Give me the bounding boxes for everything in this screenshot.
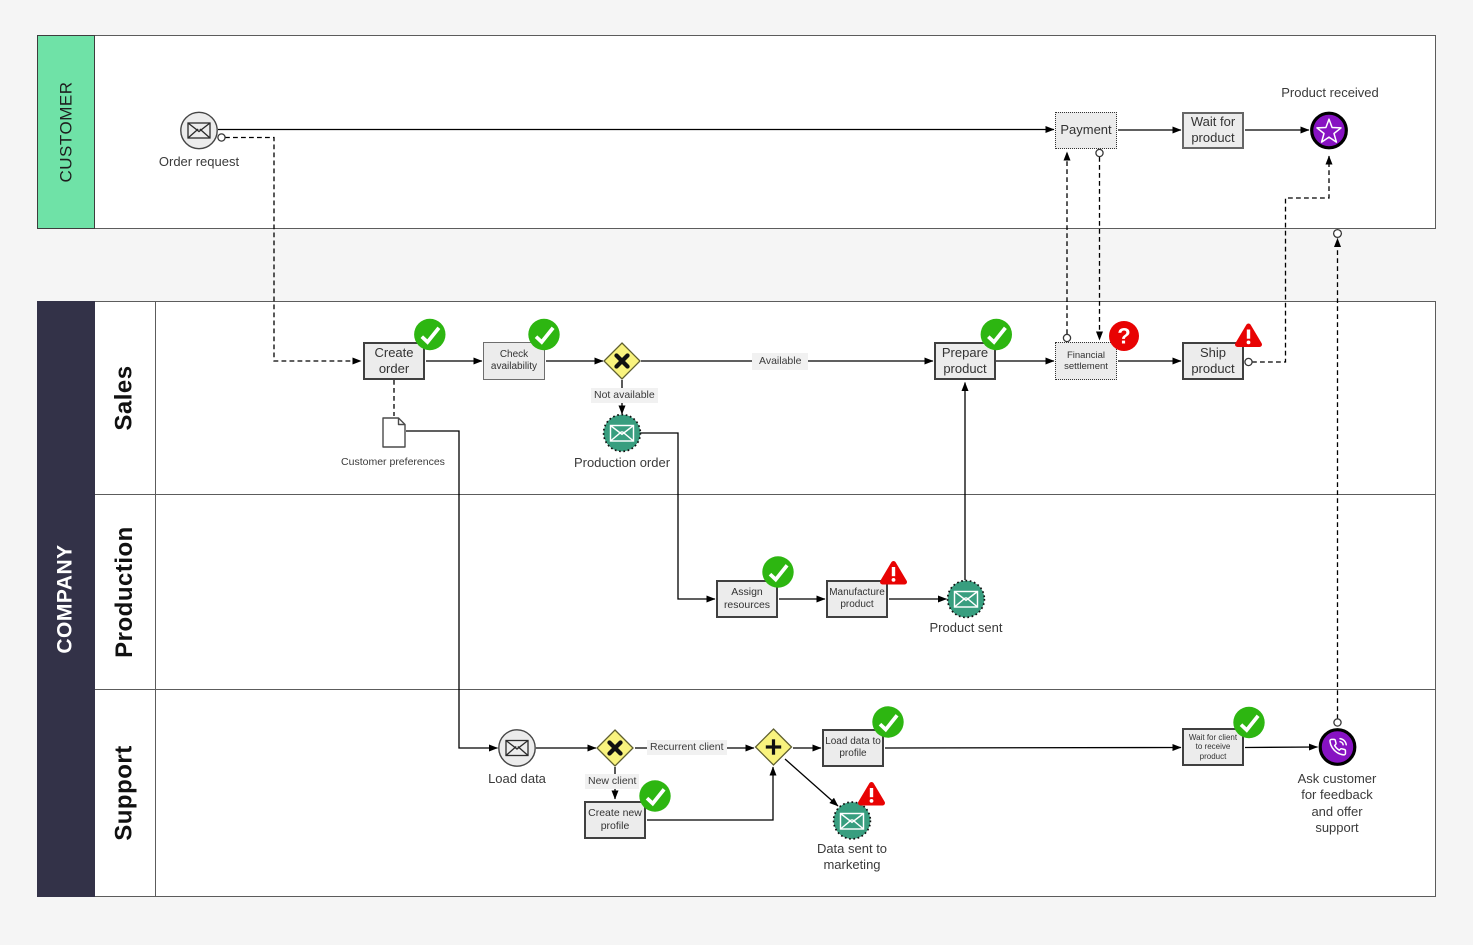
svg-text:?: ? <box>1117 324 1130 349</box>
